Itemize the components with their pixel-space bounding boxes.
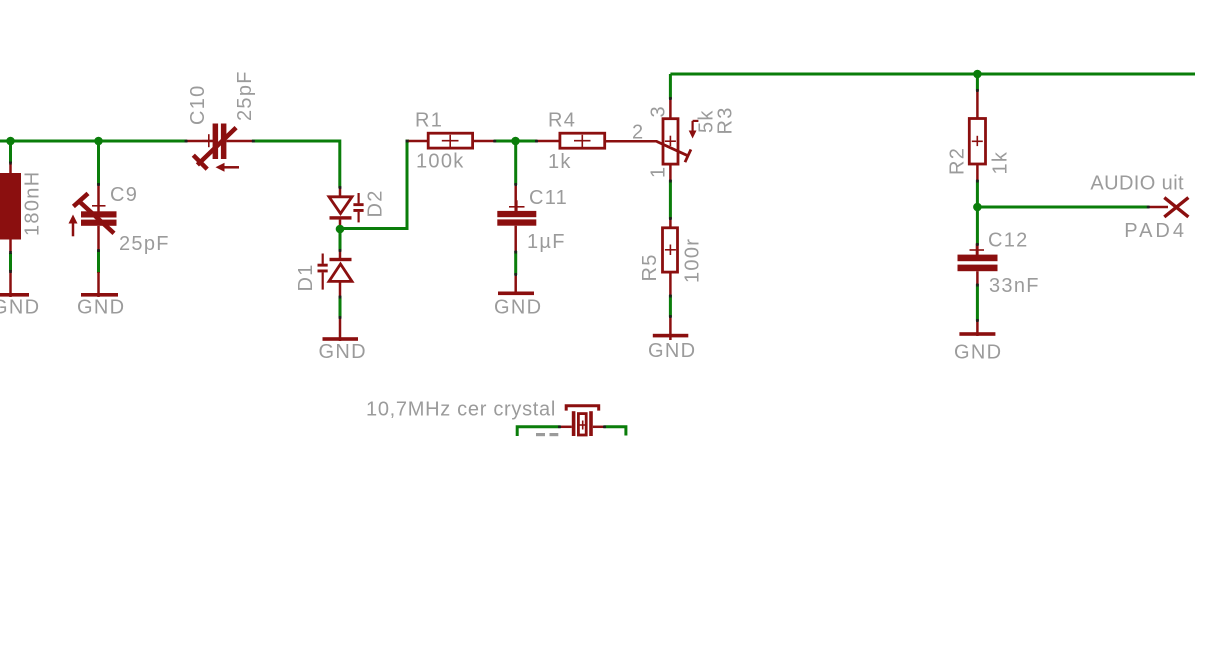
wire C10 to corner <box>252 140 340 143</box>
junction node top rail / R2 <box>973 70 982 79</box>
svg-text:1k: 1k <box>990 151 1012 175</box>
junction node at inductor <box>6 137 15 146</box>
resistor R1 100k <box>407 110 512 173</box>
wire corner down to D2 <box>338 140 341 189</box>
svg-text:33nF: 33nF <box>989 275 1040 297</box>
ground under inductor <box>0 293 40 319</box>
resistor R5 100r <box>639 228 704 340</box>
ground under C9 <box>77 293 125 319</box>
crystal Q (10.7MHz ceramic) <box>559 406 604 436</box>
capacitor C11 1uF <box>497 141 568 295</box>
svg-text:C10: C10 <box>187 84 209 125</box>
svg-text:D1: D1 <box>295 263 317 291</box>
svg-text:R5: R5 <box>639 253 661 281</box>
junction node between D1 and D2 <box>336 225 345 234</box>
svg-text:PAD4: PAD4 <box>1124 220 1187 242</box>
wire to PAD4 <box>977 206 1168 209</box>
svg-text:GND: GND <box>954 342 1002 364</box>
crystal label <box>366 399 556 421</box>
pad PAD4 AUDIO uit <box>1090 173 1188 243</box>
svg-text:GND: GND <box>77 297 125 319</box>
svg-text:2: 2 <box>632 122 644 144</box>
svg-text:R2: R2 <box>947 147 969 175</box>
svg-text:1µF: 1µF <box>527 231 566 253</box>
partial hidden label under crystal <box>536 433 558 436</box>
ground under C11 <box>494 292 542 319</box>
svg-text:C9: C9 <box>110 184 138 206</box>
svg-text:100k: 100k <box>416 151 465 173</box>
inductor L 180nH <box>0 141 44 297</box>
junction node R1/C11/R4 <box>511 137 520 146</box>
wire junction to R4 <box>519 140 537 143</box>
trimmer capacitor C9 25pF <box>69 141 170 297</box>
svg-text:GND: GND <box>494 297 542 319</box>
svg-text:R1: R1 <box>415 110 443 132</box>
svg-text:3: 3 <box>648 105 670 117</box>
svg-text:AUDIO uit: AUDIO uit <box>1090 173 1184 195</box>
svg-text:R3: R3 <box>715 106 737 134</box>
svg-text:C12: C12 <box>988 230 1029 252</box>
wire right of crystal <box>604 427 626 436</box>
svg-text:GND: GND <box>0 297 40 319</box>
svg-text:25pF: 25pF <box>119 233 170 255</box>
svg-text:180nH: 180nH <box>22 171 44 236</box>
varicap diode D2 <box>329 187 387 226</box>
wire left of crystal <box>517 427 560 436</box>
ground under D1 <box>319 337 367 363</box>
varicap diode D1 <box>295 254 352 298</box>
svg-text:GND: GND <box>319 341 367 363</box>
wire from varicap node right and up to R1 <box>340 141 409 229</box>
svg-text:C11: C11 <box>529 187 568 209</box>
resistor R2 1k <box>947 74 1012 205</box>
potentiometer R3 5k <box>632 74 737 228</box>
svg-text:1: 1 <box>648 166 670 178</box>
svg-text:10,7MHz cer crystal: 10,7MHz cer crystal <box>366 399 556 421</box>
svg-text:100r: 100r <box>682 238 704 283</box>
pin connection ticks <box>9 89 1150 428</box>
ground under R5 <box>648 334 696 362</box>
junction node at C9 <box>94 137 103 146</box>
svg-text:D2: D2 <box>365 189 387 217</box>
trimmer capacitor C10 25pF (series, horizontal) <box>186 70 256 172</box>
svg-text:R4: R4 <box>548 110 576 132</box>
svg-text:25pF: 25pF <box>234 70 256 121</box>
wire top rail <box>670 73 1195 76</box>
capacitor C12 33nF <box>958 207 1040 336</box>
junction node R2/C12/PAD4 <box>973 203 982 212</box>
svg-text:1k: 1k <box>548 151 572 173</box>
wire node to D1 <box>339 229 342 258</box>
ground under C12 <box>954 332 1002 363</box>
wire D1 to ground <box>339 296 342 341</box>
resistor R4 1k <box>536 110 657 174</box>
svg-text:GND: GND <box>648 340 696 362</box>
wire main horizontal left net <box>0 140 187 143</box>
